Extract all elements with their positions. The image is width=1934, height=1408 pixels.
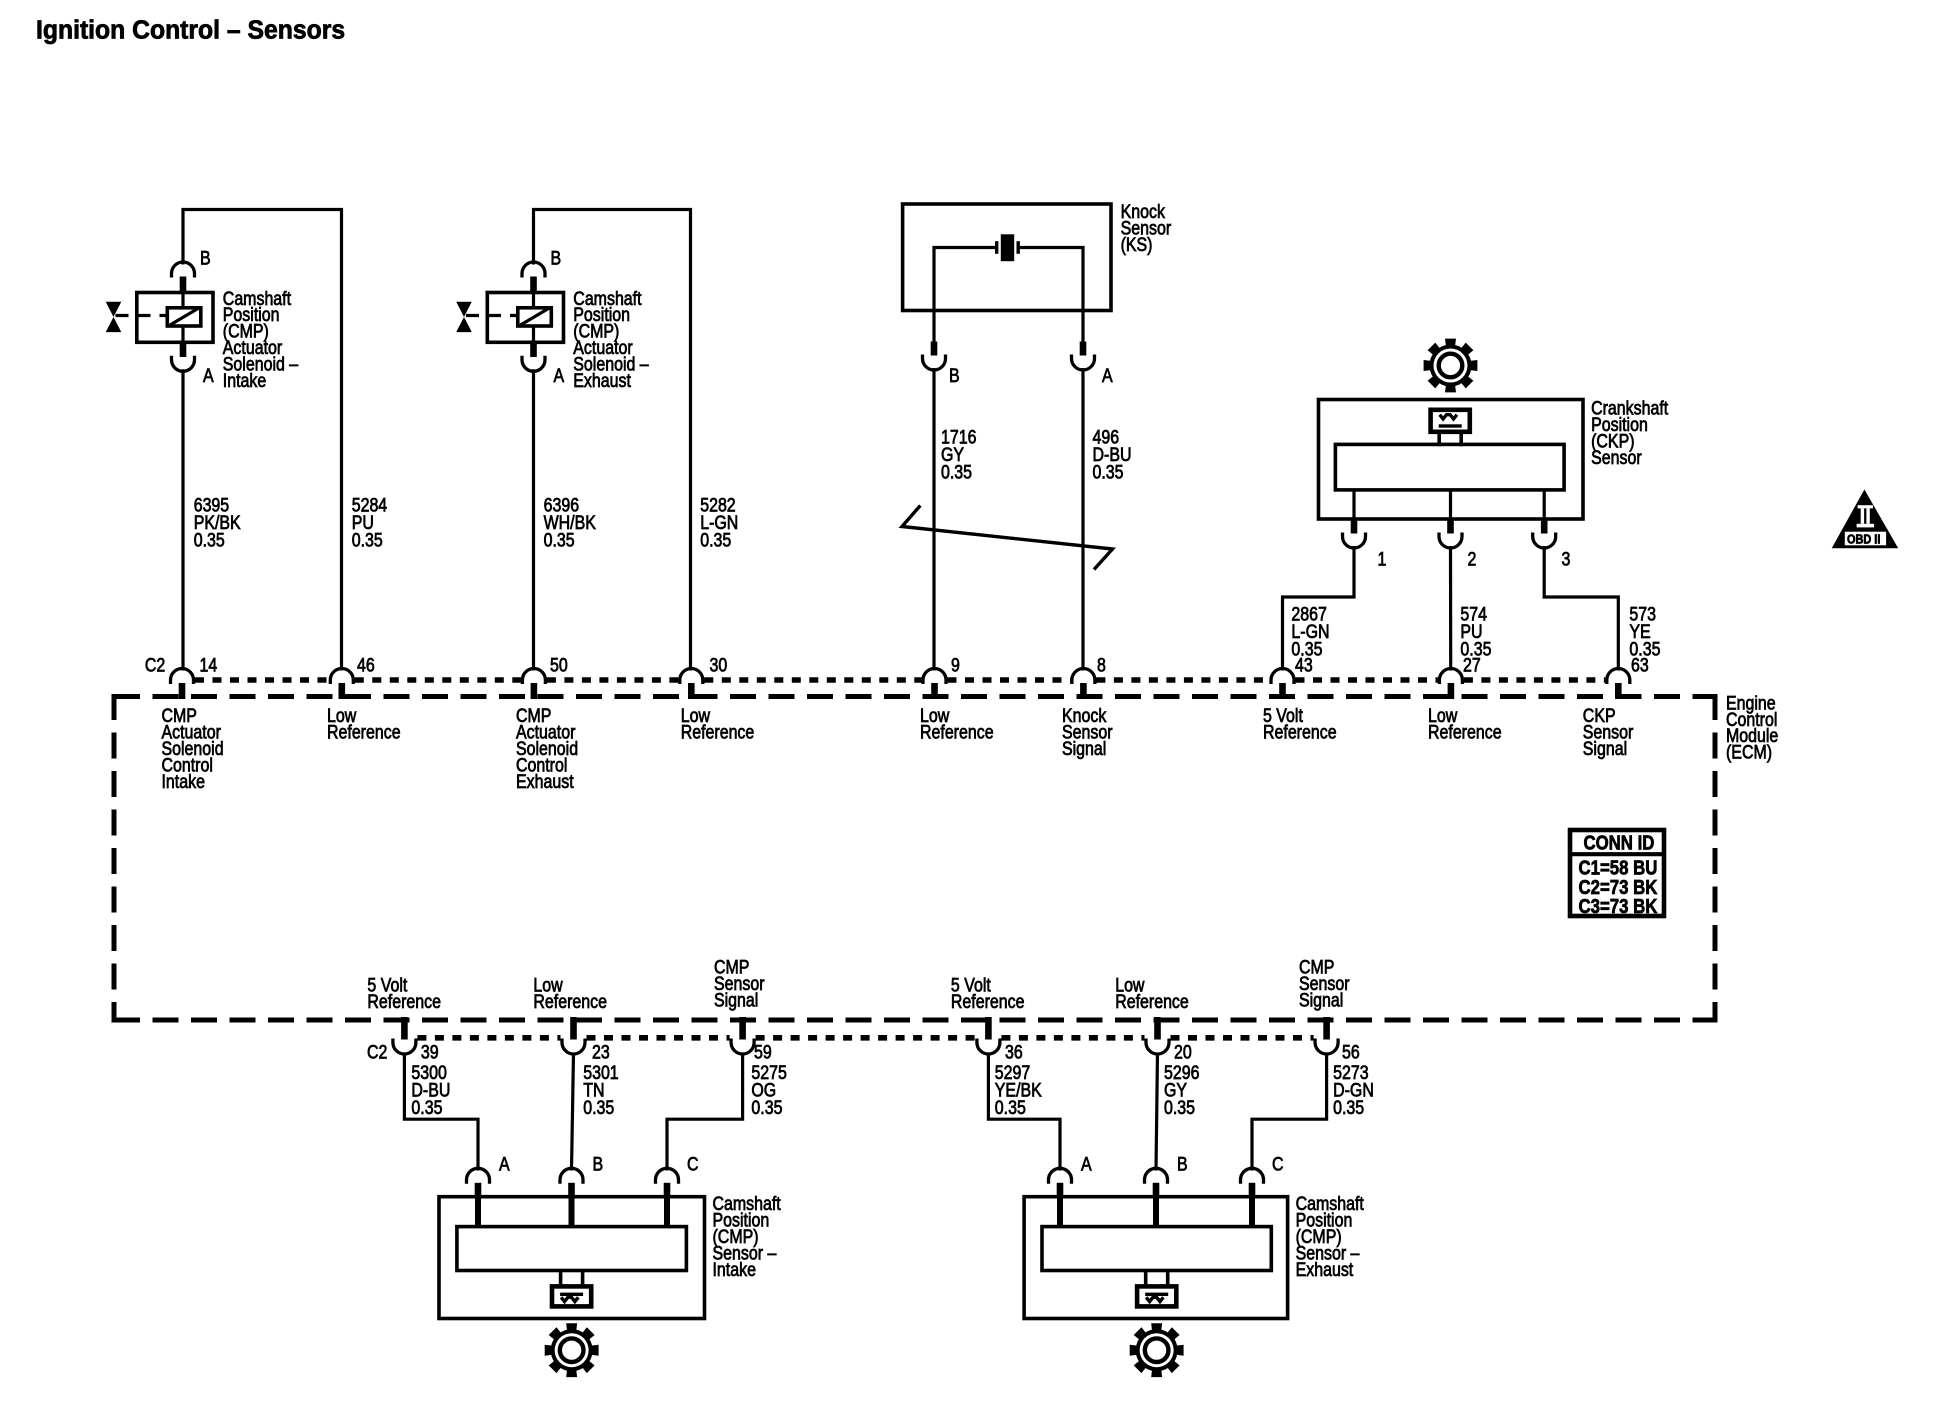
engine control module (ECM) dashed boundary bbox=[114, 694, 1715, 1023]
svg-text:9: 9 bbox=[951, 654, 960, 676]
wire solenoid loop top [CMP actuator solenoid intake] bbox=[183, 210, 342, 671]
svg-text:30: 30 bbox=[710, 654, 728, 676]
ECM signal label (bottom): Low Reference bbox=[1115, 974, 1189, 1012]
svg-text:A: A bbox=[499, 1153, 510, 1175]
ECM signal label (bottom): 5 Volt Reference bbox=[951, 974, 1025, 1012]
svg-text:0.35: 0.35 bbox=[995, 1097, 1026, 1119]
wire KS-A upper segment bbox=[1081, 311, 1084, 342]
pin label A (CMP intake) bbox=[499, 1153, 510, 1175]
pin label B [CMP actuator solenoid exhaust] bbox=[551, 247, 562, 269]
svg-text:2: 2 bbox=[1468, 548, 1477, 570]
svg-text:39: 39 bbox=[421, 1041, 439, 1063]
pin number 50 (ECM top) bbox=[550, 654, 568, 676]
pin label A [CMP actuator solenoid intake] bbox=[203, 365, 214, 387]
connector label C2 (ECM bottom) bbox=[367, 1041, 387, 1063]
pin label 3 (CKP) bbox=[1562, 548, 1571, 570]
inline connector terminal 2 (CKP) bbox=[1439, 520, 1462, 548]
ECM bottom pin terminal at x=742.6 bbox=[731, 1017, 754, 1054]
connector face icon (CMP intake) bbox=[552, 1271, 591, 1307]
svg-text:B: B bbox=[1177, 1153, 1188, 1175]
svg-text:OBD II: OBD II bbox=[1847, 531, 1880, 546]
pin number 30 (ECM top) bbox=[710, 654, 728, 676]
svg-text:0.35: 0.35 bbox=[352, 529, 383, 551]
ECM bottom connector row dotted line (C2) bbox=[417, 1035, 1313, 1041]
wire 2867 label bbox=[1291, 603, 1329, 660]
wire 5296 label bbox=[1164, 1062, 1199, 1119]
svg-text:0.35: 0.35 bbox=[751, 1097, 782, 1119]
internal pin lead (CMP intake) x=571.5 bbox=[569, 1198, 575, 1227]
reluctor gear icon (CKP) bbox=[1424, 339, 1478, 393]
svg-text:Reference: Reference bbox=[1115, 990, 1189, 1012]
wire 1716 label bbox=[941, 426, 976, 483]
CKP sensor element rect bbox=[1335, 444, 1564, 490]
pin number 63 (ECM top) bbox=[1631, 654, 1649, 676]
knock sensor (KS) box bbox=[903, 204, 1111, 311]
svg-text:Ignition Control – Sensors: Ignition Control – Sensors bbox=[36, 16, 345, 44]
ECM signal label (bottom): CMP Sensor Signal bbox=[714, 956, 765, 1010]
ECM signal label: CKP Sensor Signal bbox=[1583, 705, 1634, 759]
internal pin lead (CMP exhaust) x=1252 bbox=[1249, 1198, 1255, 1227]
wire solenoid loop top [CMP actuator solenoid exhaust] bbox=[534, 210, 691, 671]
svg-text:Reference: Reference bbox=[533, 990, 607, 1012]
CKP internal pin 3 lead bbox=[1543, 490, 1546, 520]
solenoid pintle [CMP actuator solenoid exhaust] bbox=[532, 294, 535, 343]
wire 2867 L-GN CKP pin1 to ECM pin 43 bbox=[1283, 546, 1355, 671]
ECM signal label: Knock Sensor Signal bbox=[1062, 705, 1113, 759]
dashed actuator link [CMP actuator solenoid exhaust] bbox=[466, 314, 518, 317]
ECM signal label: CMP Actuator Solenoid Control Intake bbox=[162, 705, 224, 792]
ECM top pin terminal at x=1618.3 bbox=[1607, 669, 1630, 700]
pin number 8 (ECM top) bbox=[1097, 654, 1106, 676]
internal pin lead (CMP intake) x=478 bbox=[475, 1198, 481, 1227]
ECM top pin terminal at x=533.9 bbox=[522, 669, 545, 700]
solenoid coil element [CMP actuator solenoid exhaust] bbox=[518, 308, 552, 326]
wire 574 PU CKP pin2 to ECM pin 27 bbox=[1449, 546, 1452, 671]
pin number 46 (ECM top) bbox=[357, 654, 375, 676]
inline connector terminal B (CMP exhaust) bbox=[1145, 1168, 1168, 1198]
svg-text:Signal: Signal bbox=[1062, 738, 1106, 760]
KS internal wiring bbox=[934, 248, 1083, 311]
svg-text:Signal: Signal bbox=[714, 989, 758, 1011]
CONN ID table bbox=[1570, 830, 1664, 918]
svg-text:Intake: Intake bbox=[162, 770, 205, 792]
wire 574 label bbox=[1460, 603, 1491, 660]
svg-text:27: 27 bbox=[1463, 654, 1481, 676]
wire 496 label bbox=[1093, 426, 1132, 483]
svg-text:20: 20 bbox=[1174, 1041, 1192, 1063]
component name label [CMP actuator solenoid exhaust] bbox=[573, 287, 649, 391]
pin label 2 (CKP) bbox=[1468, 548, 1477, 570]
svg-text:0.35: 0.35 bbox=[544, 529, 575, 551]
ECM bottom pin terminal at x=1157.5 bbox=[1146, 1017, 1169, 1054]
pin label A (KS) bbox=[1102, 365, 1113, 387]
wire 6395 label bbox=[194, 494, 241, 551]
wire 5275 label bbox=[751, 1062, 787, 1119]
solenoid coil element [CMP actuator solenoid intake] bbox=[167, 308, 201, 326]
ECM signal label (bottom): Low Reference bbox=[533, 974, 607, 1012]
svg-text:0.35: 0.35 bbox=[194, 529, 225, 551]
solenoid body box [CMP actuator solenoid exhaust] bbox=[487, 293, 563, 343]
wire 5273 D-GN pin56 to CMP-C bbox=[1252, 1053, 1327, 1171]
pin number 20 (ECM bottom) bbox=[1174, 1041, 1192, 1063]
ECM top pin terminal at x=934.5 bbox=[923, 669, 946, 700]
svg-text:Exhaust: Exhaust bbox=[516, 770, 574, 792]
svg-text:14: 14 bbox=[200, 654, 218, 676]
pin label C (CMP intake) bbox=[687, 1153, 699, 1175]
wire 5300 D-BU pin39 to CMP-A bbox=[404, 1053, 478, 1171]
svg-text:(ECM): (ECM) bbox=[1726, 741, 1772, 763]
internal pin lead (CMP intake) x=667 bbox=[664, 1198, 670, 1227]
ECM top pin terminal at x=182 bbox=[171, 669, 194, 700]
svg-text:Exhaust: Exhaust bbox=[573, 369, 631, 391]
inline connector terminal C (CMP exhaust) bbox=[1241, 1168, 1264, 1198]
svg-text:Exhaust: Exhaust bbox=[1296, 1258, 1354, 1280]
svg-text:Reference: Reference bbox=[327, 721, 401, 743]
svg-text:1: 1 bbox=[1378, 548, 1387, 570]
camshaft position sensor box (CMP intake) bbox=[439, 1197, 705, 1319]
CKP connector face icon bbox=[1431, 410, 1470, 447]
component name label Knock Sensor (KS) bbox=[1121, 201, 1172, 255]
svg-text:Reference: Reference bbox=[681, 721, 755, 743]
svg-text:C: C bbox=[687, 1153, 699, 1175]
connector face icon (CMP exhaust) bbox=[1137, 1271, 1176, 1307]
ECM bottom pin terminal at x=573.5 bbox=[562, 1017, 585, 1054]
wire KS-B upper segment bbox=[932, 311, 935, 342]
svg-text:A: A bbox=[554, 365, 565, 387]
sensor element rect (CMP exhaust) bbox=[1042, 1227, 1271, 1271]
crankshaft position (CKP) sensor box bbox=[1319, 400, 1584, 520]
svg-text:Reference: Reference bbox=[920, 721, 994, 743]
ECM bottom pin terminal at x=1326.6 bbox=[1315, 1017, 1338, 1054]
svg-text:0.35: 0.35 bbox=[1093, 461, 1124, 483]
wire solenoid A to ECM [CMP actuator solenoid exhaust] bbox=[532, 369, 535, 670]
reluctor gear icon (CMP intake) bbox=[545, 1323, 599, 1377]
svg-text:Intake: Intake bbox=[223, 369, 266, 391]
ECM signal label: Low Reference bbox=[681, 705, 755, 743]
svg-text:0.35: 0.35 bbox=[1164, 1097, 1195, 1119]
inline connector terminal 1 (CKP) bbox=[1343, 520, 1366, 548]
ECM signal label: CMP Actuator Solenoid Control Exhaust bbox=[516, 705, 578, 792]
inline connector terminal A (solenoid bottom) [CMP actuator solenoid exhaust] bbox=[522, 342, 545, 371]
svg-text:A: A bbox=[1081, 1153, 1092, 1175]
solenoid body box [CMP actuator solenoid intake] bbox=[137, 293, 213, 343]
svg-text:Reference: Reference bbox=[1263, 721, 1337, 743]
solenoid pintle [CMP actuator solenoid intake] bbox=[181, 294, 184, 343]
wire 5297 YE/BK pin36 to CMP-A bbox=[988, 1053, 1060, 1171]
ECM signal label: Low Reference bbox=[920, 705, 994, 743]
pin number 36 (ECM bottom) bbox=[1005, 1041, 1023, 1063]
svg-text:B: B bbox=[593, 1153, 604, 1175]
piezo element inside KS bbox=[995, 234, 1020, 261]
wire solenoid A to ECM [CMP actuator solenoid intake] bbox=[181, 369, 184, 670]
ECM top pin terminal at x=1450.9 bbox=[1439, 669, 1462, 700]
pin number 9 (ECM top) bbox=[951, 654, 960, 676]
svg-text:Reference: Reference bbox=[951, 990, 1025, 1012]
pin number 39 (ECM bottom) bbox=[421, 1041, 439, 1063]
svg-text:0.35: 0.35 bbox=[700, 529, 731, 551]
wire 573 label bbox=[1629, 603, 1660, 660]
svg-text:B: B bbox=[551, 247, 562, 269]
inline connector terminal A (KS) bbox=[1072, 342, 1095, 371]
inline connector terminal B (CMP intake) bbox=[560, 1168, 583, 1198]
ECM top pin terminal at x=691.3 bbox=[680, 669, 703, 700]
pin number 59 (ECM bottom) bbox=[754, 1041, 772, 1063]
svg-text:C: C bbox=[1272, 1153, 1284, 1175]
svg-text:56: 56 bbox=[1342, 1041, 1360, 1063]
ECM signal label (bottom): 5 Volt Reference bbox=[367, 974, 441, 1012]
svg-text:B: B bbox=[949, 365, 960, 387]
pin label B (CMP exhaust) bbox=[1177, 1153, 1188, 1175]
pin label 1 (CKP) bbox=[1378, 548, 1387, 570]
inline connector terminal A (CMP intake) bbox=[467, 1168, 490, 1198]
svg-text:C3=73 BK: C3=73 BK bbox=[1579, 895, 1658, 918]
component name label [CMP actuator solenoid intake] bbox=[223, 287, 299, 391]
pin number 23 (ECM bottom) bbox=[592, 1041, 610, 1063]
svg-text:(KS): (KS) bbox=[1121, 234, 1153, 256]
dashed actuator link [CMP actuator solenoid intake] bbox=[116, 314, 168, 317]
connector label C2 (ECM top) bbox=[145, 654, 165, 676]
title: Ignition Control - Sensors bbox=[36, 16, 345, 44]
component name label (CMP exhaust) bbox=[1296, 1193, 1364, 1280]
svg-text:3: 3 bbox=[1562, 548, 1571, 570]
wire 496 D-BU to ECM pin 8 bbox=[1081, 368, 1084, 671]
svg-text:50: 50 bbox=[550, 654, 568, 676]
svg-text:C2: C2 bbox=[367, 1041, 387, 1063]
wire 5300 label bbox=[411, 1062, 450, 1119]
svg-text:63: 63 bbox=[1631, 654, 1649, 676]
ECM signal label (bottom): CMP Sensor Signal bbox=[1299, 956, 1350, 1010]
inline connector terminal A (CMP exhaust) bbox=[1049, 1168, 1072, 1198]
svg-text:A: A bbox=[1102, 365, 1113, 387]
ECM bottom pin terminal at x=404.4 bbox=[393, 1017, 416, 1054]
svg-text:36: 36 bbox=[1005, 1041, 1023, 1063]
ECM top connector row dotted line (C2) bbox=[195, 677, 1605, 683]
wire 5282 label bbox=[700, 494, 738, 551]
ECM signal label: Low Reference bbox=[1428, 705, 1502, 743]
wire 5301 label bbox=[583, 1062, 618, 1119]
ECM top pin terminal at x=341.8 bbox=[330, 669, 353, 700]
pin number 14 (ECM top) bbox=[200, 654, 218, 676]
svg-text:Signal: Signal bbox=[1583, 738, 1627, 760]
ECM top pin terminal at x=1282.5 bbox=[1271, 669, 1294, 700]
OBD II marker triangle bbox=[1832, 490, 1899, 549]
camshaft position sensor box (CMP exhaust) bbox=[1024, 1197, 1288, 1319]
pin label C (CMP exhaust) bbox=[1272, 1153, 1284, 1175]
wire 1716 GY to ECM pin 9 bbox=[932, 368, 935, 671]
pin number 43 (ECM top) bbox=[1295, 654, 1313, 676]
wire 5297 label bbox=[995, 1062, 1042, 1119]
svg-text:0.35: 0.35 bbox=[583, 1097, 614, 1119]
svg-text:Intake: Intake bbox=[713, 1258, 756, 1280]
svg-text:0.35: 0.35 bbox=[411, 1097, 442, 1119]
inline connector terminal 3 (CKP) bbox=[1533, 520, 1556, 548]
wire 5301 TN pin23 to CMP-B bbox=[572, 1053, 574, 1171]
reluctor gear icon (CMP exhaust) bbox=[1130, 1323, 1184, 1377]
CKP internal pin 2 lead bbox=[1449, 490, 1452, 520]
svg-text:46: 46 bbox=[357, 654, 375, 676]
internal pin lead (CMP exhaust) x=1156 bbox=[1153, 1198, 1159, 1227]
svg-text:CONN ID: CONN ID bbox=[1584, 831, 1655, 854]
svg-text:Sensor: Sensor bbox=[1591, 447, 1642, 469]
pin label B (KS) bbox=[949, 365, 960, 387]
inline connector terminal C (CMP intake) bbox=[656, 1168, 679, 1198]
svg-text:B: B bbox=[200, 247, 211, 269]
ECM top pin terminal at x=1083.4 bbox=[1072, 669, 1095, 700]
svg-text:A: A bbox=[203, 365, 214, 387]
pin number 27 (ECM top) bbox=[1463, 654, 1481, 676]
pin label A (CMP exhaust) bbox=[1081, 1153, 1092, 1175]
svg-text:Reference: Reference bbox=[1428, 721, 1502, 743]
wire 6396 label bbox=[544, 494, 597, 551]
valve symbol (bowtie) [CMP actuator solenoid intake] bbox=[106, 302, 122, 332]
inline connector terminal A (solenoid bottom) [CMP actuator solenoid intake] bbox=[172, 342, 195, 371]
wire 5275 OG pin59 to CMP-C bbox=[667, 1053, 743, 1171]
inline connector terminal B (KS) bbox=[923, 342, 946, 371]
sensor element rect (CMP intake) bbox=[457, 1227, 687, 1271]
svg-text:23: 23 bbox=[592, 1041, 610, 1063]
ECM signal label: 5 Volt Reference bbox=[1263, 705, 1337, 743]
CKP internal pin 1 lead bbox=[1352, 490, 1355, 520]
component name label (CMP intake) bbox=[713, 1193, 781, 1280]
pin label B [CMP actuator solenoid intake] bbox=[200, 247, 211, 269]
pin label B (CMP intake) bbox=[593, 1153, 604, 1175]
ECM bottom pin terminal at x=988.4 bbox=[977, 1017, 1000, 1054]
svg-text:8: 8 bbox=[1097, 654, 1106, 676]
component name label Engine Control Module (ECM) bbox=[1726, 692, 1778, 763]
svg-text:C2: C2 bbox=[145, 654, 165, 676]
svg-text:59: 59 bbox=[754, 1041, 772, 1063]
wire 5284 label bbox=[352, 494, 388, 551]
svg-text:43: 43 bbox=[1295, 654, 1313, 676]
inline connector terminal B (solenoid top) [CMP actuator solenoid intake] bbox=[172, 262, 195, 294]
wire 573 YE CKP pin3 to ECM pin 63 bbox=[1544, 546, 1618, 671]
valve symbol (bowtie) [CMP actuator solenoid exhaust] bbox=[456, 302, 472, 332]
svg-text:0.35: 0.35 bbox=[941, 461, 972, 483]
svg-text:Reference: Reference bbox=[367, 990, 441, 1012]
component name label Crankshaft Position (CKP) Sensor bbox=[1591, 397, 1668, 468]
pin number 56 (ECM bottom) bbox=[1342, 1041, 1360, 1063]
twisted pair marker bbox=[902, 506, 1113, 570]
pin label A [CMP actuator solenoid exhaust] bbox=[554, 365, 565, 387]
ECM signal label: Low Reference bbox=[327, 705, 401, 743]
wire 5296 GY pin20 to CMP-B bbox=[1156, 1053, 1158, 1171]
svg-text:Signal: Signal bbox=[1299, 989, 1343, 1011]
wire 5273 label bbox=[1333, 1062, 1374, 1119]
svg-text:0.35: 0.35 bbox=[1333, 1097, 1364, 1119]
internal pin lead (CMP exhaust) x=1060 bbox=[1057, 1198, 1063, 1227]
inline connector terminal B (solenoid top) [CMP actuator solenoid exhaust] bbox=[522, 262, 545, 294]
